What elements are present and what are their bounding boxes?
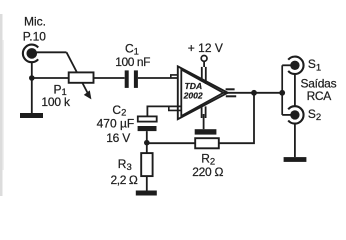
wire echo below inverting input lead — [169, 107, 181, 111]
wire echo above non-inverting input lead — [171, 75, 181, 79]
svg-text:16 V: 16 V — [106, 131, 130, 145]
capacitor C2 bottom plate (filled) — [138, 126, 157, 131]
svg-text:P.10: P.10 — [23, 29, 46, 43]
ground bar (mic) — [20, 113, 43, 118]
wire S-bus to S2 pin — [282, 114, 290, 116]
wire S-bus to S1 pin — [282, 64, 290, 66]
wire C2 bottom down to R3 — [146, 131, 148, 153]
node junction C2/R3/R2 — [144, 140, 150, 146]
pot wiper arrowhead — [84, 90, 92, 99]
svg-text:100 k: 100 k — [41, 95, 71, 109]
resistor R2 body — [195, 138, 219, 148]
node junction output/S-bus — [279, 90, 285, 96]
capacitor C2 top plate (outline) — [138, 116, 157, 121]
node junction mic/ground/pot — [29, 75, 35, 81]
ground bar (R3) — [136, 191, 157, 196]
supply terminal circle +12V — [201, 56, 207, 62]
wire amp ground lead doubled right — [205, 106, 207, 118]
ground bar (amp pin) — [195, 129, 217, 134]
wire amp ground lead doubled left — [201, 104, 203, 118]
wire mic dot to pot wiper (horizontal part) — [37, 51, 67, 53]
wire pot wiper arrow shaft (diagonal) — [67, 52, 88, 93]
connector S2 RCA (shield arc) — [288, 106, 303, 123]
op-amp U1 TDA2002 inner outline — [181, 70, 223, 116]
wire R2 right to feedback riser — [219, 93, 254, 143]
wire supply stem — [203, 61, 205, 67]
connector S2 RCA (center pin dot) — [290, 110, 299, 119]
svg-text:100 nF: 100 nF — [115, 55, 150, 69]
wire supply doubled left — [201, 67, 203, 82]
resistor R3 body — [141, 153, 152, 176]
wire amp ground stem — [203, 114, 205, 129]
svg-text:RCA: RCA — [307, 89, 332, 103]
svg-text:2,2 Ω: 2,2 Ω — [111, 173, 138, 187]
wire S-bus vertical — [281, 65, 283, 115]
svg-text:Mic.: Mic. — [24, 15, 46, 29]
wire amp output to S-bus — [223, 92, 282, 94]
potentiometer P1 body — [69, 72, 94, 82]
wire output echo stub below — [226, 95, 236, 97]
wire C1 to amp non-inverting input — [138, 77, 181, 79]
capacitor C1 right plate — [134, 70, 138, 88]
wire S2 shield to ground — [294, 124, 296, 157]
connector J1 mic jack P.10 (center pin dot) — [27, 48, 38, 59]
wire junction to P1 left terminal — [32, 77, 69, 79]
wire supply doubled right — [205, 67, 207, 84]
node junction output/feedback — [251, 90, 257, 96]
svg-text:2002: 2002 — [183, 91, 203, 101]
wire C2 top to amp inverting input — [147, 106, 181, 116]
wire S1 shield to S2 shield — [294, 74, 296, 105]
capacitor C1 left plate — [125, 70, 129, 88]
connector S1 RCA (center pin dot) — [290, 61, 299, 70]
wire output echo stub above — [226, 88, 235, 90]
connector J1 mic jack P.10 (shield arc) — [23, 45, 38, 63]
wire mic shield down to ground — [31, 62, 33, 113]
ground bar (S2) — [284, 157, 307, 162]
svg-text:+ 12 V: + 12 V — [188, 41, 223, 55]
wire junction to R2 left — [147, 142, 195, 144]
op-amp U1 TDA2002 outer outline — [178, 66, 228, 119]
connector S1 RCA (shield arc) — [288, 57, 303, 74]
svg-text:470 µF: 470 µF — [97, 117, 135, 131]
wire R3 to ground — [146, 176, 148, 190]
wire P1 right terminal to C1 — [94, 77, 125, 79]
svg-text:220 Ω: 220 Ω — [192, 165, 223, 179]
